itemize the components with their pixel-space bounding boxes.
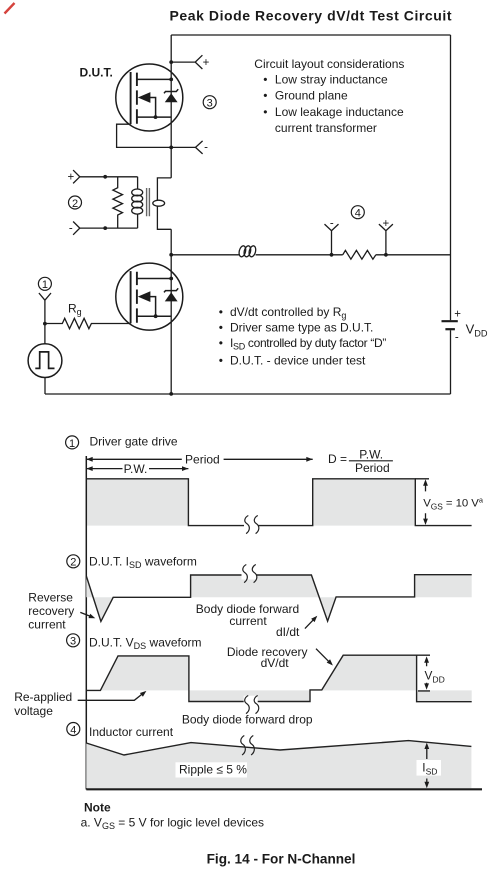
svg-text:Body diode forward drop: Body diode forward drop [182,713,313,727]
probe sense + (DUT) [171,55,209,69]
dimension P.W. [86,462,188,476]
waveform 3 gray fill [86,655,471,702]
label ripple [176,762,248,777]
probe - (transformer) [69,222,80,235]
svg-text:Period: Period [185,452,220,466]
DUT mosfet Q1 [116,64,183,131]
svg-text:ISD controlled by duty factor: ISD controlled by duty factor “D” [230,336,386,352]
wave 1 circled [66,436,79,450]
waveform 3 ticks [417,655,430,691]
svg-text:+: + [203,57,210,69]
svg-text:Re-applied: Re-applied [14,690,72,704]
svg-text:dI/dt: dI/dt [276,625,300,639]
svg-text:D.U.T. VDS waveform: D.U.T. VDS waveform [89,636,202,652]
svg-text:-: - [69,223,73,235]
svg-text:Circuit layout considerations: Circuit layout considerations [254,57,404,71]
waveform 3 break [244,696,259,714]
wire DUT source / secondary top jog [157,178,171,201]
waveform 1 gray fill [86,479,415,526]
svg-text:Ripple ≤ 5 %: Ripple ≤ 5 % [179,762,247,776]
svg-text:•: • [263,72,267,86]
svg-text:-: - [204,142,208,154]
text dVdt bullets [219,305,387,367]
probe + (transformer) [67,170,79,183]
svg-text:•: • [219,336,223,350]
svg-text:current: current [229,614,267,628]
svg-text:-: - [330,217,334,229]
svg-text:•: • [219,321,223,335]
wire resistor to rail [376,254,451,256]
resistor Rg [45,301,131,328]
svg-text:4: 4 [70,724,76,736]
label re-applied voltage [14,690,72,718]
wire secondary bottom jog [157,206,171,229]
label reverse recovery current [28,590,74,631]
probe - (node 4) [325,217,339,255]
probe sense - (DUT) [196,141,209,154]
red corner mark [5,3,15,14]
waveform 1 break [244,516,259,534]
inductor L1 [238,245,257,257]
wire driver drain vertical [170,229,172,394]
waveform 4 bottom line [86,788,482,790]
svg-text:2: 2 [72,198,78,210]
wire top rail [171,34,450,36]
wire node to inductor [171,254,239,256]
svg-text:dV/dt: dV/dt [261,656,290,670]
label body diode forward current [196,602,299,628]
callout re-applied arrow [78,689,148,700]
svg-text:Driver gate drive: Driver gate drive [90,435,178,449]
dimension VDD [424,656,445,689]
callout reverse recovery arrow [80,612,96,620]
svg-text:voltage: voltage [14,704,53,718]
svg-text:Note: Note [84,801,111,815]
svg-text:•: • [219,305,223,319]
waveform 4 gray fill [86,741,471,789]
svg-text:•: • [219,353,223,367]
svg-text:•: • [263,89,267,103]
svg-text:3: 3 [70,636,76,648]
driver mosfet Q2 [116,263,183,330]
svg-text:+: + [454,308,461,320]
probe + (node 4) [379,218,393,255]
wire right rail upper [450,35,452,320]
svg-text:Inductor current: Inductor current [89,725,174,739]
svg-text:•: • [263,105,267,119]
svg-text:current: current [28,617,66,631]
svg-text:P.W.: P.W. [124,462,148,476]
svg-text:Low stray inductance: Low stray inductance [275,72,388,86]
axis vertical [85,456,87,790]
waveform 2 ISD trace [86,575,471,622]
svg-text:dV/dt controlled by Rg: dV/dt controlled by Rg [230,305,346,321]
callout dV/dt arrow [316,649,335,667]
waveform 3 VDS trace [86,655,471,702]
waveform 4 break [241,736,255,756]
waveform 2 break [242,565,257,583]
transformer T1 secondary loop [153,200,165,206]
node 4 circled [351,206,364,220]
label diode recovery dV/dt [227,645,308,670]
svg-text:recovery: recovery [28,604,74,618]
svg-text:3: 3 [207,98,213,110]
wire DUT gate-source wrap [117,124,196,147]
waveform 4 inductor current trace [86,741,471,755]
node 1 circled [38,277,51,291]
formula D = PW/Period [328,448,393,476]
wave 3 circled [67,634,80,648]
svg-text:P.W.: P.W. [359,448,383,462]
waveform 2 gray fill [86,575,471,622]
transformer T1 primary winding [132,177,143,228]
transformer T1 primary wires [80,177,138,228]
svg-text:D.U.T.: D.U.T. [80,66,113,80]
svg-text:current transformer: current transformer [275,121,377,135]
probe (node 1) [39,293,51,344]
svg-text:4: 4 [355,208,361,220]
text circuit layout considerations [254,57,404,135]
resistor damping (transformer primary) [113,177,123,228]
resistor current sense [343,250,376,259]
svg-text:D.U.T. ISD waveform: D.U.T. ISD waveform [89,555,197,571]
svg-text:Period: Period [355,461,390,475]
svg-text:D.U.T. - device under test: D.U.T. - device under test [230,353,366,367]
transformer T1 core [147,188,150,216]
svg-text:2: 2 [70,557,76,569]
wire DUT drain vertical [170,35,172,178]
wave 4 circled [67,723,80,737]
waveform 1 driver gate drive trace [86,479,471,526]
dimension ISD [417,743,442,789]
wire right rail lower [450,330,452,394]
wave 2 circled [67,555,80,569]
wire bottom rail [45,393,451,395]
waveform 1 top tick [415,478,429,480]
svg-text:D =: D = [328,452,347,466]
svg-text:Peak Diode Recovery dV/dt Test: Peak Diode Recovery dV/dt Test Circuit [170,7,452,23]
callout dI/dt arrow [305,614,319,628]
node 3 circled [203,96,216,110]
dimension VGS [423,479,484,525]
svg-text:1: 1 [69,438,75,450]
pulse generator V1 [28,344,62,394]
svg-text:-: - [455,332,459,344]
svg-text:1: 1 [42,279,48,291]
svg-text:Ground plane: Ground plane [275,89,348,103]
svg-text:Driver same type as D.U.T.: Driver same type as D.U.T. [230,321,373,335]
svg-text:Reverse: Reverse [28,590,73,604]
svg-text:Fig. 14 - For N-Channel: Fig. 14 - For N-Channel [207,851,356,866]
dimension period [86,452,312,466]
svg-text:+: + [383,218,390,230]
node 2 circled [69,196,82,210]
battery VDD [442,308,488,343]
svg-text:Low leakage inductance: Low leakage inductance [275,105,404,119]
svg-text:+: + [67,171,74,183]
wire inductor to resistor [256,254,343,256]
